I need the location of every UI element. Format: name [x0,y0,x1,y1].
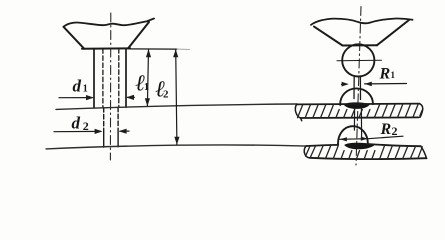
arrowhead l2 top [173,49,178,57]
arrowhead d1 left [86,95,94,100]
neck dimension right arrow with tail under R1 [365,83,407,85]
arrowhead d1 right [126,95,134,100]
rivet head (countersunk) left: bottom edge [82,47,130,50]
svg-text:2: 2 [163,89,169,101]
hidden hole line right (dashed) [118,49,120,108]
dimension line d1 right tail [128,96,135,98]
svg-text:R: R [379,66,391,83]
upper squeezed metal (filled lens) [344,102,371,109]
dimension line l2 [176,49,177,144]
lower head dimension arrows with leader to R2 [340,136,403,139]
rivet head top break (wavy) [64,19,155,27]
arrowhead lower-left (points left) [340,137,347,141]
rivet head left slant [64,27,85,49]
shank outer line left (d1) [93,49,95,108]
plate bottom surface line (long) [46,145,306,149]
svg-text:1: 1 [144,82,149,93]
svg-text:1: 1 [391,70,396,80]
upper plate right end [420,104,423,118]
snap tool top break (wavy) [311,18,413,24]
lower plate bottom edge [310,158,427,159]
forming ball circle [342,44,374,76]
centerline left rivet [109,13,111,160]
neck line left (ball to head) [353,77,355,99]
dimension line l1 [147,49,148,106]
ball horizontal centerline [337,59,382,62]
lower formed head dome [338,126,368,145]
lower shank line left (d2) [103,108,105,127]
dimension line d2 right tail [120,130,129,132]
svg-text:d: d [72,114,81,133]
snap tool head right: bottom edge [343,44,378,46]
rivet hole walls through upper plate [354,109,361,139]
arrowhead d2 left [95,129,103,134]
shank outer line right (d1) [125,49,127,108]
plate top surface line (long) [56,104,297,109]
svg-text:1: 1 [83,84,88,95]
svg-text:2: 2 [392,124,398,138]
arrowhead lower-right (points right) [361,137,368,141]
lower shank line right (d2) [117,107,119,127]
svg-text:R: R [380,121,392,138]
lower squeezed metal (filled lens) [344,143,375,150]
centerline right rivet [356,7,361,166]
extension line faint tail [177,48,190,50]
lower plate top edge right [368,144,421,146]
arrowhead d2 right [119,129,127,134]
upper formed head dome [340,88,373,105]
upper plate left end [295,104,301,121]
lower plate hatching [306,145,423,159]
snap tool left slant [314,27,343,46]
upper plate hatching [298,104,423,118]
lower plate top edge left [306,145,338,146]
upper plate top edge [297,103,420,106]
arrowhead l1 bottom [145,98,150,106]
neck line right (ball to head) [359,76,361,99]
rivet head right slant [128,22,149,49]
dimension line d1 left [59,97,92,99]
neck dimension left arrow [342,83,344,85]
head base extension line [129,48,178,50]
dimension line d2 left [54,130,101,132]
hidden hole line left (dashed) [102,49,104,108]
arrowhead l2 bottom [174,137,179,145]
lower plate left end [304,146,309,158]
svg-text:2: 2 [83,119,89,133]
lower plate right end [421,146,427,158]
upper plate bottom edge [301,116,419,119]
svg-text:d: d [73,77,82,96]
arrowhead l1 top [146,49,151,57]
snap tool right slant [377,20,409,45]
